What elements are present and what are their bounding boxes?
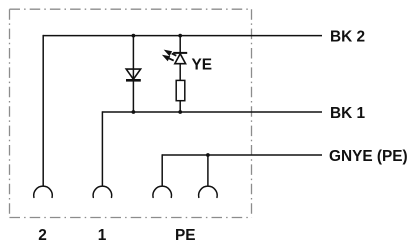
diode V1	[126, 69, 141, 80]
enclosure dashed outline bottom	[10, 217, 252, 219]
junction dot BK2/diode	[132, 34, 136, 38]
socket contact terminal PE left	[153, 186, 172, 197]
LED light arrow lower	[162, 55, 174, 62]
wire terminal 1 vertical	[101, 111, 103, 186]
svg-text:GNYE (PE): GNYE (PE)	[329, 148, 408, 165]
enclosure dashed outline left	[9, 9, 11, 217]
enclosure dashed outline top	[10, 8, 252, 10]
svg-text:2: 2	[38, 227, 47, 244]
wire terminal PE left vertical	[161, 154, 163, 186]
svg-text:1: 1	[98, 227, 107, 244]
wire diode branch vertical	[132, 36, 134, 112]
wire LED branch vertical upper	[179, 36, 181, 53]
socket contact terminal 2	[34, 186, 53, 197]
wire resistor to BK1	[179, 101, 181, 112]
LED V2 (yellow)	[173, 53, 187, 64]
junction dot BK1/diode	[132, 110, 136, 114]
svg-text:PE: PE	[175, 227, 196, 244]
svg-text:YE: YE	[192, 57, 213, 74]
junction dot GNYE/PE	[206, 153, 210, 157]
wire GNYE horizontal	[162, 154, 322, 156]
junction dot BK1/resistor	[178, 110, 182, 114]
wire terminal PE right vertical	[207, 155, 209, 186]
wire BK 1 horizontal	[102, 111, 322, 113]
wire terminal 2 vertical	[42, 35, 44, 187]
socket contact terminal PE right	[199, 186, 218, 197]
enclosure dashed outline right	[251, 9, 253, 217]
socket contact terminal 1	[93, 186, 112, 197]
LED light arrow upper	[164, 50, 177, 57]
wire LED to resistor	[179, 64, 181, 81]
junction dot BK2/LED	[178, 34, 182, 38]
wire BK 2 horizontal	[43, 35, 322, 37]
svg-text:BK 2: BK 2	[330, 29, 365, 46]
svg-text:BK 1: BK 1	[330, 105, 366, 122]
resistor R1	[176, 80, 185, 100]
